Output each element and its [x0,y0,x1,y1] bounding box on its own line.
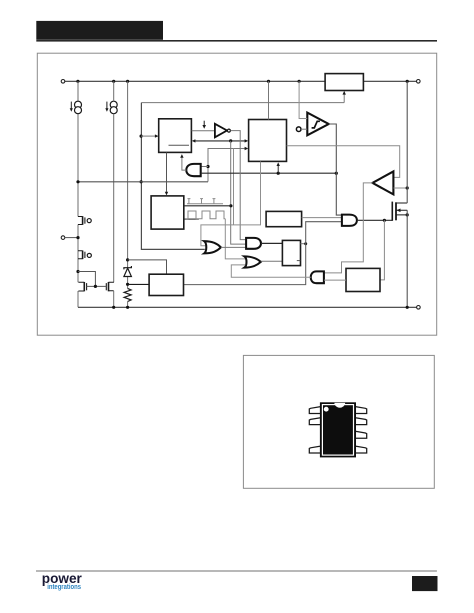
footer black bar bottom-right [412,576,438,591]
wire inverter output bus [231,131,247,240]
hysteresis glyph [312,121,320,128]
AND gate U2 (left pointing, feeds box1) [186,164,200,176]
transistor Q2 (lower small MOSFET with bubble) [78,251,91,260]
bottom source rail [78,306,417,308]
box U1 regulator (box1) [159,119,192,153]
node Q2 source junction [76,270,79,273]
wire rail to box2 top [268,81,270,119]
wire comparator output to AND2 input [329,124,342,215]
package pin 6 (right) [355,431,366,438]
comparator U11 with hysteresis [307,113,328,136]
package pin 5 (right bottom) [355,446,366,453]
transistor Q1 (upper small MOSFET with bubble) [78,216,91,225]
waveform glyph square wave (CLOCK) [185,211,225,219]
wire oscillator output B [184,218,199,220]
node bypass-box1 junction [140,135,143,138]
wire box2 bottom pin to y225 line and OR1 [201,162,261,246]
package pin 1 (left top) [309,407,320,414]
wire box2 right to driver input [287,146,400,178]
wire Q4 source to rail [113,291,115,308]
node mirror gate junction [94,285,97,288]
footer rule [36,570,437,571]
wire mirror gate bus [87,285,107,287]
current source I1 [75,101,82,114]
wire AND1 output to FF [261,242,282,244]
wire into AND-L input1 [201,166,208,168]
wire drain column x407 [406,81,408,307]
box U12 regulator 5.8V (top right) [325,74,363,91]
header underline [36,40,437,42]
node bottom rail junction dots [112,306,409,309]
wire y182 line [78,181,208,183]
node gate junction [383,219,386,222]
wire FF output to x305.7 bus [301,243,306,245]
top supply rail [65,80,417,82]
wire OR2 output to FF [261,260,283,262]
terminal top-left [61,80,65,84]
resistor R1 [124,288,131,301]
figure 1 border frame [37,53,436,335]
wire bypass bus x141 down to OR1 [141,103,204,250]
AND gate U16 (AND3, left pointing) [311,271,324,283]
wire bypass bus y102.5 [141,102,344,104]
wire bubble to comparator [301,128,307,130]
FF inner tick [297,260,301,262]
inverter U3 bubble [227,129,230,132]
driver U14 (left pointing triangle) [373,171,394,194]
arrow up into box2 bottom [277,166,279,174]
zener diode D1 [124,266,131,277]
floating arrow above inverter input [203,121,205,126]
package body inner white outline [322,405,353,456]
box U10 LEB [266,211,302,226]
current source I2 [110,101,117,114]
package top notch [334,403,345,408]
arrow into regulator bottom [343,94,345,103]
transistor Q4 (current mirror right NMOS) [106,282,114,291]
node y173-box2 junction [277,172,280,175]
node zener anode junction [126,283,129,286]
wire oscillator output A [184,205,231,207]
current source I1 arrow [70,102,72,109]
node zener top junction [126,258,129,261]
wire box1 bottom to oscillator top with arrow [166,153,168,193]
wire AND U2 output up into box1 [182,157,187,170]
wire y173 long line [201,172,337,174]
box U5 oscillator [151,196,184,229]
AND gate U13 (AND2 gate drive) [342,215,357,226]
wire U15 output to AND3 input [324,279,346,281]
wire left chain x=78 [77,81,79,307]
current source I2 arrow [106,102,108,109]
wire y148.5 from box2 via x208 to AND-L and y182 [208,149,245,182]
node rail junction dots [76,80,409,83]
package body DIP-8 [320,402,356,457]
AND gate U7 (AND1) [246,238,261,249]
wire CLOCK to OR2 upper input [225,219,245,259]
wire zener node to lower box top [128,260,167,274]
figure 2 border frame [243,355,434,488]
box U15 (bottom right) [346,268,380,291]
wire AND3 output loop to OR2 input [231,265,310,277]
wire x305.7 bus AND2 to lower box [184,222,342,285]
node FF output junction [304,242,307,245]
node MOSFET source junction [406,213,409,216]
terminal bottom-right [417,306,421,310]
terminal EN pin [61,236,65,240]
package pin1 marker dot [324,407,329,412]
svg-text:integrations: integrations [47,584,81,592]
node oscillator output A junction [229,204,232,207]
wire x233.5 link [233,149,235,225]
wire driver power tap [394,187,408,189]
wire box1-box2 bus with arrows both ends [195,140,246,142]
wire OR1 output to AND1 [221,246,246,248]
box1 inner underline [169,144,190,146]
wire zener column [127,81,129,307]
OR gate U6 (OR1) [204,241,221,253]
waveform glyph ticks (DMAX) [187,199,223,204]
node driver power junction [406,186,409,189]
node y182 left junction [76,180,79,183]
box U9 flip-flop [282,240,300,265]
wire mirror gate link [78,272,95,287]
wire inverter input [192,130,215,132]
node bypass-y182 junction [140,180,143,183]
node x208 junction [206,165,209,168]
header black bar [36,21,163,40]
node y173 right junction [335,172,338,175]
power MOSFET Q5 [392,202,407,221]
wire driver output feedback to AND3 [324,183,373,273]
inverter U3 triangle [215,124,227,138]
wire AND2 output to MOSFET gate [357,219,392,221]
package pin 8 (right top) [355,407,366,414]
package pin 2 (left) [309,418,320,425]
wire into box1 left with arrow [141,135,155,137]
package pin 7 (right) [355,418,366,425]
OR gate U8 (OR2) [244,256,260,267]
box U17 (bottom left small box) [149,274,183,295]
wire DMAX bus x230.7 [231,141,247,244]
MOSFET body diode arrow [397,209,401,213]
transistor Q3 (current mirror left NMOS) [78,282,86,291]
node EN junction [76,236,79,239]
wire EN pin [65,237,78,239]
wire rail to comparator upper input [299,81,307,118]
comparator input bubble [296,127,301,132]
node bus junction x230.6 [229,139,232,142]
package pin 4 (left bottom) [309,446,320,453]
terminal top-right [417,80,421,84]
wire gate node down to box U15 right [380,220,384,280]
wire zener anode to lower box left [128,283,150,285]
wire LEB output to AND2 [302,217,342,219]
wire current source I2 column [113,81,115,282]
box U4 (box2 state machine) [249,120,287,162]
